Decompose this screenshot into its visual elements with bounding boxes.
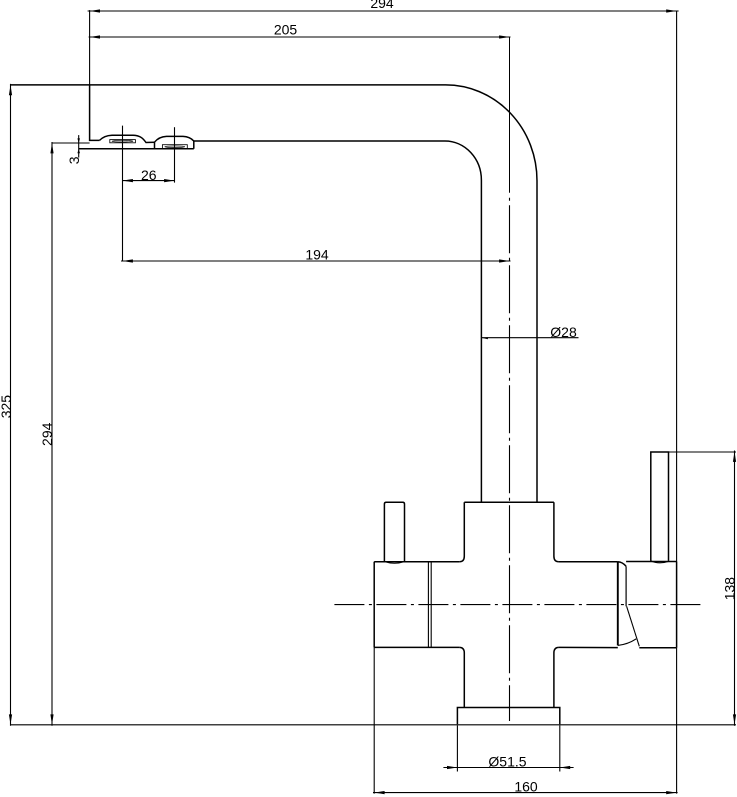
svg-text:294: 294: [39, 422, 55, 446]
valve housing cartridge side: [625, 566, 627, 606]
dimension 26: [123, 126, 175, 261]
spout tip end face: [90, 85, 100, 140]
neck right side with fillet: [554, 502, 559, 561]
aerator outlet rectangle 1: [110, 140, 136, 143]
right handle bar: [651, 452, 669, 563]
dimension 194: [121, 260, 511, 262]
lower neck right with fillet: [554, 647, 559, 707]
extension line spout tip (shared 294/205): [89, 10, 91, 85]
dimension 294 top: [88, 11, 679, 562]
body bottom edge: [374, 646, 618, 648]
aerator lens 2: [165, 146, 185, 148]
arrowheads dimension 325: [9, 85, 12, 725]
lower neck left with fillet: [459, 647, 464, 707]
label 26: [141, 167, 157, 183]
dimension 3: [78, 135, 80, 157]
arrowheads dimension 160: [374, 791, 676, 794]
label 205: [274, 21, 298, 37]
label 325 rotated: [0, 395, 14, 419]
arrowheads dimension 205: [90, 35, 510, 38]
aerator bump 2: [155, 136, 194, 148]
label 194: [305, 247, 329, 263]
svg-text:205: 205: [274, 21, 298, 37]
arrowheads dimension 194: [123, 259, 510, 262]
dimension 160: [373, 647, 678, 793]
baseline / counter plane: [11, 724, 737, 726]
label diameter 28: [550, 324, 577, 340]
valve housing right edge of body: [617, 562, 619, 646]
left arm of body: [373, 562, 375, 648]
svg-text:Ø28: Ø28: [550, 324, 577, 340]
vertical centerline of riser pipe: [509, 37, 511, 721]
neck top step: [464, 501, 554, 503]
label 160: [514, 778, 538, 794]
spout top outline with elbow: [11, 85, 538, 502]
arrowheads dimension 294 left: [50, 143, 53, 725]
svg-text:194: 194: [305, 247, 329, 263]
valve housing step curve: [618, 562, 626, 567]
leader Ø28: [481, 337, 578, 339]
valve housing diagonal: [627, 606, 640, 646]
dimension diameter 51.5: [443, 725, 573, 771]
tip bottom plate: [79, 148, 194, 150]
arrowheads dimension 3 outside: [77, 138, 80, 153]
horizontal centerline of body: [334, 604, 701, 606]
label 294 left rotated: [39, 422, 55, 446]
svg-text:160: 160: [514, 778, 538, 794]
valve housing bottom curve: [618, 639, 636, 646]
dimension 325 left: [10, 84, 12, 726]
label 294 top: [370, 0, 394, 11]
dimension 205: [89, 36, 511, 38]
aerator bump 1: [100, 135, 155, 142]
label diameter 51.5: [488, 753, 526, 769]
neck left side with fillet: [459, 502, 464, 561]
svg-text:325: 325: [0, 395, 14, 419]
dimension 294 left vertical: [52, 142, 90, 726]
left lever handle: [384, 502, 404, 563]
arrowheads dimension 294 top: [90, 9, 677, 12]
arrowheads dimension 51.5 outside: [447, 766, 570, 769]
base flange: [457, 708, 559, 725]
svg-text:294: 294: [370, 0, 394, 11]
right section of body: [626, 562, 677, 648]
arrowheads dimension 138: [733, 452, 736, 725]
arrowhead leader Ø28: [481, 337, 488, 339]
joint flange lines: [428, 562, 431, 648]
spout inner outline with elbow: [194, 141, 482, 502]
svg-text:138: 138: [721, 577, 737, 601]
body top edge: [374, 561, 618, 563]
aerator lens 1: [112, 140, 133, 142]
svg-text:26: 26: [141, 167, 157, 183]
aerator outlet rectangle 2: [162, 145, 187, 149]
svg-text:3: 3: [66, 156, 82, 164]
svg-text:Ø51.5: Ø51.5: [488, 753, 526, 769]
label 3 rotated: [66, 156, 82, 164]
arrowheads dimension 26: [123, 179, 175, 182]
label 138 rotated: [721, 577, 737, 601]
dimension 138 right: [669, 451, 737, 726]
